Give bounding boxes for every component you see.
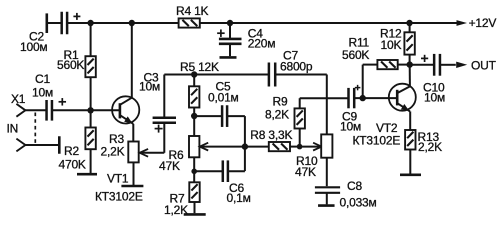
svg-text:10м: 10м: [139, 79, 160, 93]
svg-text:R9: R9: [273, 95, 288, 109]
svg-text:C1: C1: [35, 72, 50, 86]
svg-text:+12V: +12V: [469, 16, 497, 30]
svg-text:IN: IN: [7, 121, 19, 135]
svg-text:R5 12K: R5 12K: [180, 60, 219, 74]
svg-text:10м: 10м: [424, 91, 445, 105]
svg-text:1,2K: 1,2K: [164, 203, 188, 217]
svg-text:VT1: VT1: [107, 172, 129, 186]
svg-text:0,033м: 0,033м: [340, 195, 377, 209]
svg-text:2,2K: 2,2K: [418, 140, 442, 154]
svg-text:OUT: OUT: [471, 59, 497, 73]
svg-text:10K: 10K: [381, 38, 402, 52]
svg-text:47K: 47K: [159, 159, 180, 173]
svg-text:C8: C8: [347, 179, 362, 193]
svg-text:470K: 470K: [59, 158, 86, 172]
svg-text:R2: R2: [64, 144, 79, 158]
svg-text:R8 3,3K: R8 3,3K: [250, 128, 292, 142]
svg-text:220м: 220м: [248, 37, 275, 51]
svg-text:560K: 560K: [342, 48, 369, 62]
svg-text:0,01м: 0,01м: [208, 91, 239, 105]
svg-text:X1: X1: [11, 92, 26, 106]
svg-text:10м: 10м: [340, 119, 361, 133]
svg-text:560K: 560K: [57, 58, 84, 72]
svg-text:47K: 47K: [295, 165, 316, 179]
svg-text:КТ3102Е: КТ3102Е: [353, 134, 401, 148]
svg-text:100м: 100м: [20, 40, 47, 54]
svg-text:0,1м: 0,1м: [227, 191, 251, 205]
svg-text:2,2K: 2,2K: [101, 145, 125, 159]
svg-text:8,2K: 8,2K: [265, 108, 289, 122]
svg-text:КТ3102Е: КТ3102Е: [95, 190, 143, 204]
svg-text:6800p: 6800p: [280, 60, 313, 74]
svg-text:10м: 10м: [32, 85, 53, 99]
svg-text:R4 1K: R4 1K: [176, 4, 209, 18]
